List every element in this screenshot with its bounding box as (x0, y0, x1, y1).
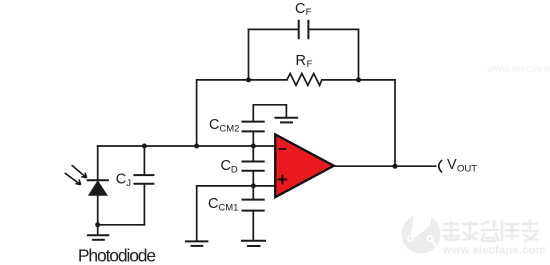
svg-text:C: C (295, 1, 305, 17)
wire: CF top row (249, 28, 359, 30)
terminal VOUT arc (439, 161, 442, 172)
wire: CD lower stub (252, 171, 254, 186)
ground (CCM1) (242, 240, 265, 242)
node: feedback junction (194, 144, 199, 149)
watermark logo (402, 211, 441, 253)
node: plus row junction (251, 183, 256, 188)
photodiode D1 cathode bar (88, 179, 108, 181)
wire: CCM2 to ground loop (253, 105, 286, 122)
wire: CCM1 lower stub (252, 211, 254, 241)
wire: CD upper stub (252, 146, 254, 162)
svg-text:F: F (307, 59, 313, 70)
ground (plus row) (186, 240, 207, 242)
svg-text:OUT: OUT (457, 163, 477, 174)
svg-text:www.elecfans.com: www.elecfans.com (442, 245, 546, 257)
ground (CCM2) (275, 117, 297, 119)
node: RF-CF left junction (246, 77, 251, 82)
svg-text:C: C (209, 117, 219, 133)
capacitor CCM2 (243, 122, 264, 132)
node: RF-CF right junction (356, 77, 361, 82)
op-amp U1 (275, 134, 334, 197)
wire: non-inverting input row (197, 185, 276, 187)
wire: RF row right (322, 79, 395, 81)
svg-text:F: F (306, 7, 312, 18)
svg-text:C: C (221, 158, 231, 174)
wire: CCM2 lower stub (252, 131, 254, 146)
svg-text:J: J (126, 178, 131, 189)
node: CCM2 junction (251, 144, 256, 149)
wire: inverting input row (98, 145, 276, 147)
photodiode D1 triangle (89, 181, 107, 195)
wire: output (334, 165, 436, 167)
wire: photodiode cathode vertical (97, 146, 99, 180)
svg-text:C: C (208, 196, 218, 212)
svg-text:D: D (231, 165, 238, 176)
wire: feedback right vertical to output (394, 80, 396, 166)
wire: plus row ground vertical (196, 186, 198, 241)
wire: photodiode ground stub (97, 225, 99, 235)
photodiode light arrow 1 (72, 165, 87, 178)
node: CJ top (142, 144, 147, 149)
svg-text:C: C (116, 172, 126, 188)
capacitor CJ (134, 175, 153, 184)
svg-text:CM1: CM1 (218, 203, 238, 214)
capacitor CCM1 (243, 200, 264, 211)
wire: CJ upper stub (143, 146, 145, 175)
op-amp plus sign (279, 176, 287, 184)
svg-text:CM2: CM2 (219, 123, 239, 134)
wire: bottom row to CJ (98, 224, 145, 226)
wire: photodiode anode vertical (97, 195, 99, 225)
photodiode light arrow 2 (65, 173, 81, 185)
svg-text:www.elecfans.com: www.elecfans.com (486, 63, 550, 75)
node: photodiode bottom (95, 222, 100, 227)
resistor RF (287, 74, 322, 86)
svg-text:R: R (296, 53, 306, 69)
node: output junction (392, 164, 397, 169)
wire: RF row left (197, 79, 287, 81)
svg-text:Photodiode: Photodiode (78, 245, 155, 265)
wire: CJ lower stub (143, 184, 145, 225)
op-amp minus sign (280, 148, 285, 150)
wire: CF left stub (248, 29, 250, 80)
wire: feedback left vertical (196, 80, 198, 146)
capacitor CF (299, 21, 309, 38)
wire: CCM1 upper stub (252, 186, 254, 200)
capacitor CD (243, 162, 264, 171)
watermark CJK text (444, 221, 537, 241)
ground (photodiode) (88, 234, 108, 236)
svg-text:V: V (447, 157, 457, 173)
wire: CF right stub (358, 29, 360, 80)
